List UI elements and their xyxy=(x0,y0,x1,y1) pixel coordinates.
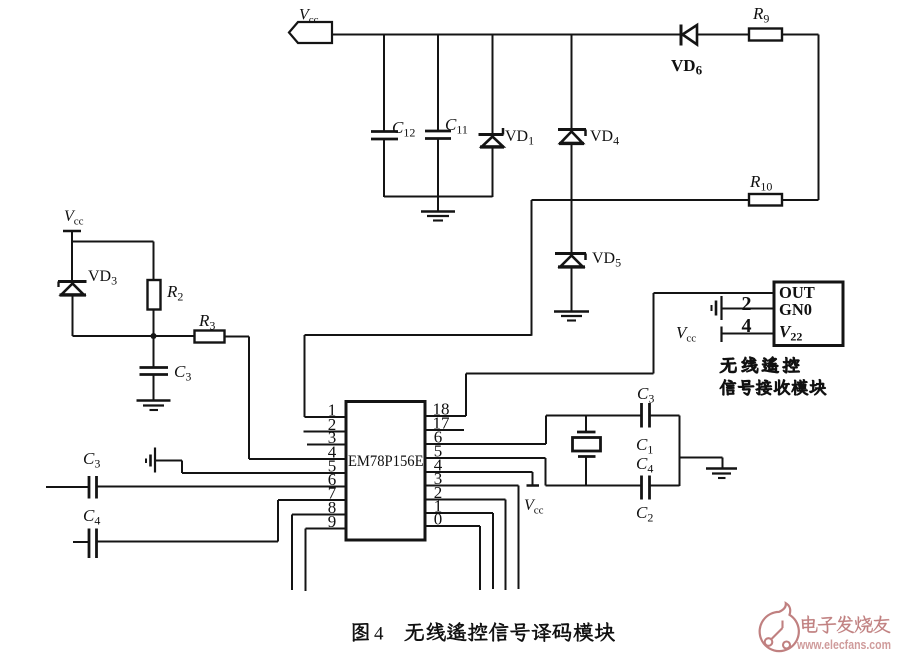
pin 13 wire down xyxy=(425,485,519,487)
wire resonator bottom xyxy=(546,485,642,487)
wire to ground from right rail xyxy=(680,457,723,459)
wire resonator right rail xyxy=(679,416,681,487)
pin 9 wire down xyxy=(306,528,347,530)
module caption line2 信号接收模块 xyxy=(720,380,736,395)
ground under C3 xyxy=(137,399,171,402)
svg-text:www.elecfans.com: www.elecfans.com xyxy=(796,637,891,652)
wire right rail down from R9 xyxy=(818,35,820,201)
rotated ground at pin5 xyxy=(154,448,156,473)
ground at resonator xyxy=(706,467,737,470)
capacitor C11 xyxy=(437,35,439,131)
pin 10 wire down xyxy=(425,525,480,527)
svg-text:4: 4 xyxy=(742,315,752,337)
svg-text:EM78P156E: EM78P156E xyxy=(348,453,424,470)
capacitor C3 (at R2/R3 node) xyxy=(153,336,155,367)
pin 3 stub xyxy=(307,444,346,446)
wire Vcc to R2 xyxy=(72,241,154,243)
resistor R9 xyxy=(749,29,782,41)
power flag Vcc (top supply) xyxy=(289,22,332,43)
pin 5 wire with side ground xyxy=(156,460,183,462)
capacitor C4 (lower left) xyxy=(73,541,89,543)
pin 12 wire down xyxy=(425,499,506,501)
watermark brand 电子发烧友 xyxy=(802,616,818,633)
wire pin1 net from R10 line xyxy=(305,334,532,336)
wire bottom of C12/C11/VD1 group xyxy=(384,196,493,198)
wire from R10 down to pin1 net xyxy=(531,200,533,336)
receiver module box xyxy=(774,282,843,346)
diode VD4 (zener) xyxy=(571,35,573,130)
module pin 4 wire xyxy=(722,333,774,335)
pin 11 wire down xyxy=(425,512,493,514)
capacitor C12 xyxy=(383,35,385,131)
resistor R10 xyxy=(749,194,782,206)
pin 2 stub xyxy=(304,431,347,433)
pin 14 wire to Vcc xyxy=(425,471,533,473)
module caption line1 无线遥控 xyxy=(720,358,736,373)
svg-text:0: 0 xyxy=(434,510,443,529)
power Vcc (left) xyxy=(63,230,81,232)
figure caption 图4 xyxy=(353,623,369,641)
ground under VD5 xyxy=(554,310,589,313)
svg-text:2: 2 xyxy=(742,293,752,315)
pin 17 stub xyxy=(425,429,464,431)
wire node row y336 xyxy=(73,335,195,337)
wire R3 to pin4 xyxy=(225,336,250,338)
wire R2 bottom lead xyxy=(153,310,155,337)
wire top rail xyxy=(332,34,680,36)
IC U1 EM78P156E xyxy=(346,402,425,541)
svg-text:9: 9 xyxy=(328,512,337,531)
wire resonator top xyxy=(546,415,642,417)
module pin 2 wire with rotated ground xyxy=(722,308,774,310)
diode VD3 (zener) xyxy=(58,280,87,283)
pin 8 wire down xyxy=(292,514,346,516)
figure caption text xyxy=(405,624,424,641)
pin 16 wire to resonator xyxy=(425,443,546,445)
diode VD5 (zener) xyxy=(555,252,586,255)
watermark logo circle xyxy=(760,603,799,651)
pin 18 wire to module OUT xyxy=(425,415,466,417)
crystal Y1 xyxy=(585,416,587,432)
capacitor C4 (resonator bottom) xyxy=(640,476,643,500)
junction dot xyxy=(151,333,157,339)
resistor R2 xyxy=(148,280,161,310)
svg-text:GN0: GN0 xyxy=(779,300,812,319)
capacitor C3 (lower left) xyxy=(46,486,89,488)
ground under C11 xyxy=(437,197,439,212)
capacitor C3 (resonator top) xyxy=(640,403,643,428)
diode VD6 (series in top rail) xyxy=(680,25,683,46)
svg-text:4: 4 xyxy=(374,624,384,645)
wire Vcc to VD3 xyxy=(71,231,73,281)
pin 15 wire to resonator xyxy=(425,457,546,459)
resistor R3 xyxy=(195,331,225,343)
diode VD1 (zener, anode down) xyxy=(492,35,494,134)
